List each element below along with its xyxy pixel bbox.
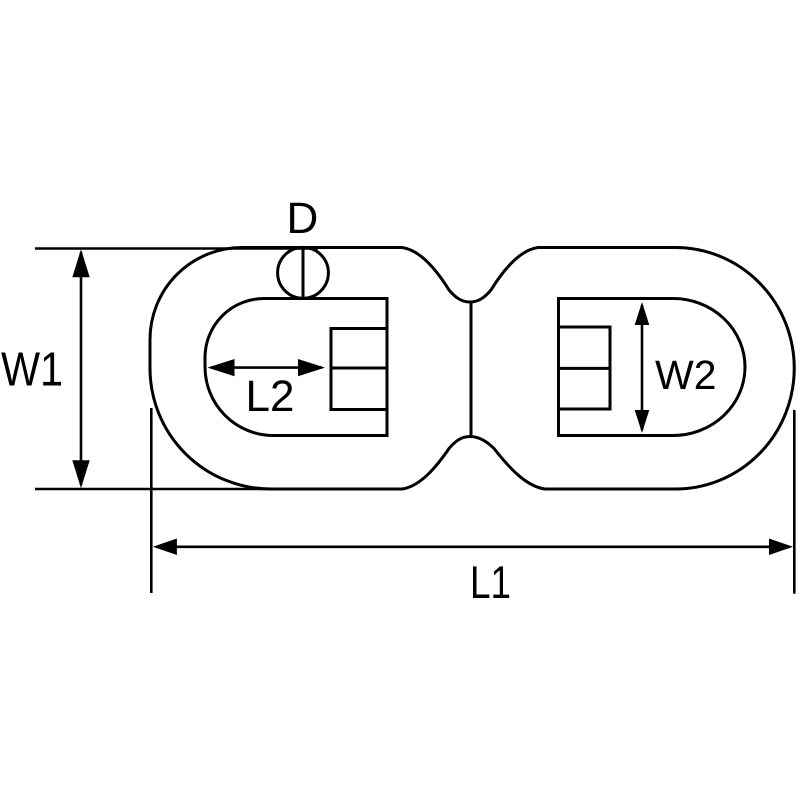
- L2 left arrowhead: [208, 359, 235, 376]
- right block middle line: [559, 367, 611, 370]
- W1 bottom extension line: [35, 488, 318, 491]
- swivel joint line at waist: [470, 304, 473, 435]
- label L2: [249, 380, 292, 411]
- L1 right arrowhead: [769, 539, 793, 556]
- left eye inner opening: [205, 299, 387, 436]
- W1 top arrowhead: [72, 249, 89, 277]
- left eye socket block: [331, 329, 387, 410]
- L2 dimension line: [211, 366, 322, 369]
- L1 right extension line: [793, 410, 796, 594]
- label W2: [655, 360, 714, 389]
- L1 dimension line: [156, 545, 790, 548]
- outer swivel body outline: [150, 248, 794, 490]
- W2 dimension line: [641, 305, 644, 430]
- L1 left extension line: [150, 408, 153, 593]
- W1 dimension line: [80, 252, 83, 485]
- label L1: [473, 566, 509, 598]
- W2 bottom arrowhead: [635, 410, 650, 433]
- L1 left arrowhead: [153, 539, 177, 556]
- pin circle for diameter D: [278, 247, 329, 298]
- W1 top extension line: [35, 247, 318, 250]
- L2 right arrowhead: [298, 359, 325, 376]
- left block middle line: [331, 367, 387, 370]
- W2 top arrowhead: [635, 302, 650, 325]
- label D: [290, 203, 316, 233]
- right eye inner opening: [559, 299, 746, 436]
- leader line through pin circle: [302, 248, 305, 299]
- label W1: [1, 353, 61, 386]
- right eye socket block: [559, 327, 611, 409]
- W1 bottom arrowhead: [72, 460, 89, 488]
